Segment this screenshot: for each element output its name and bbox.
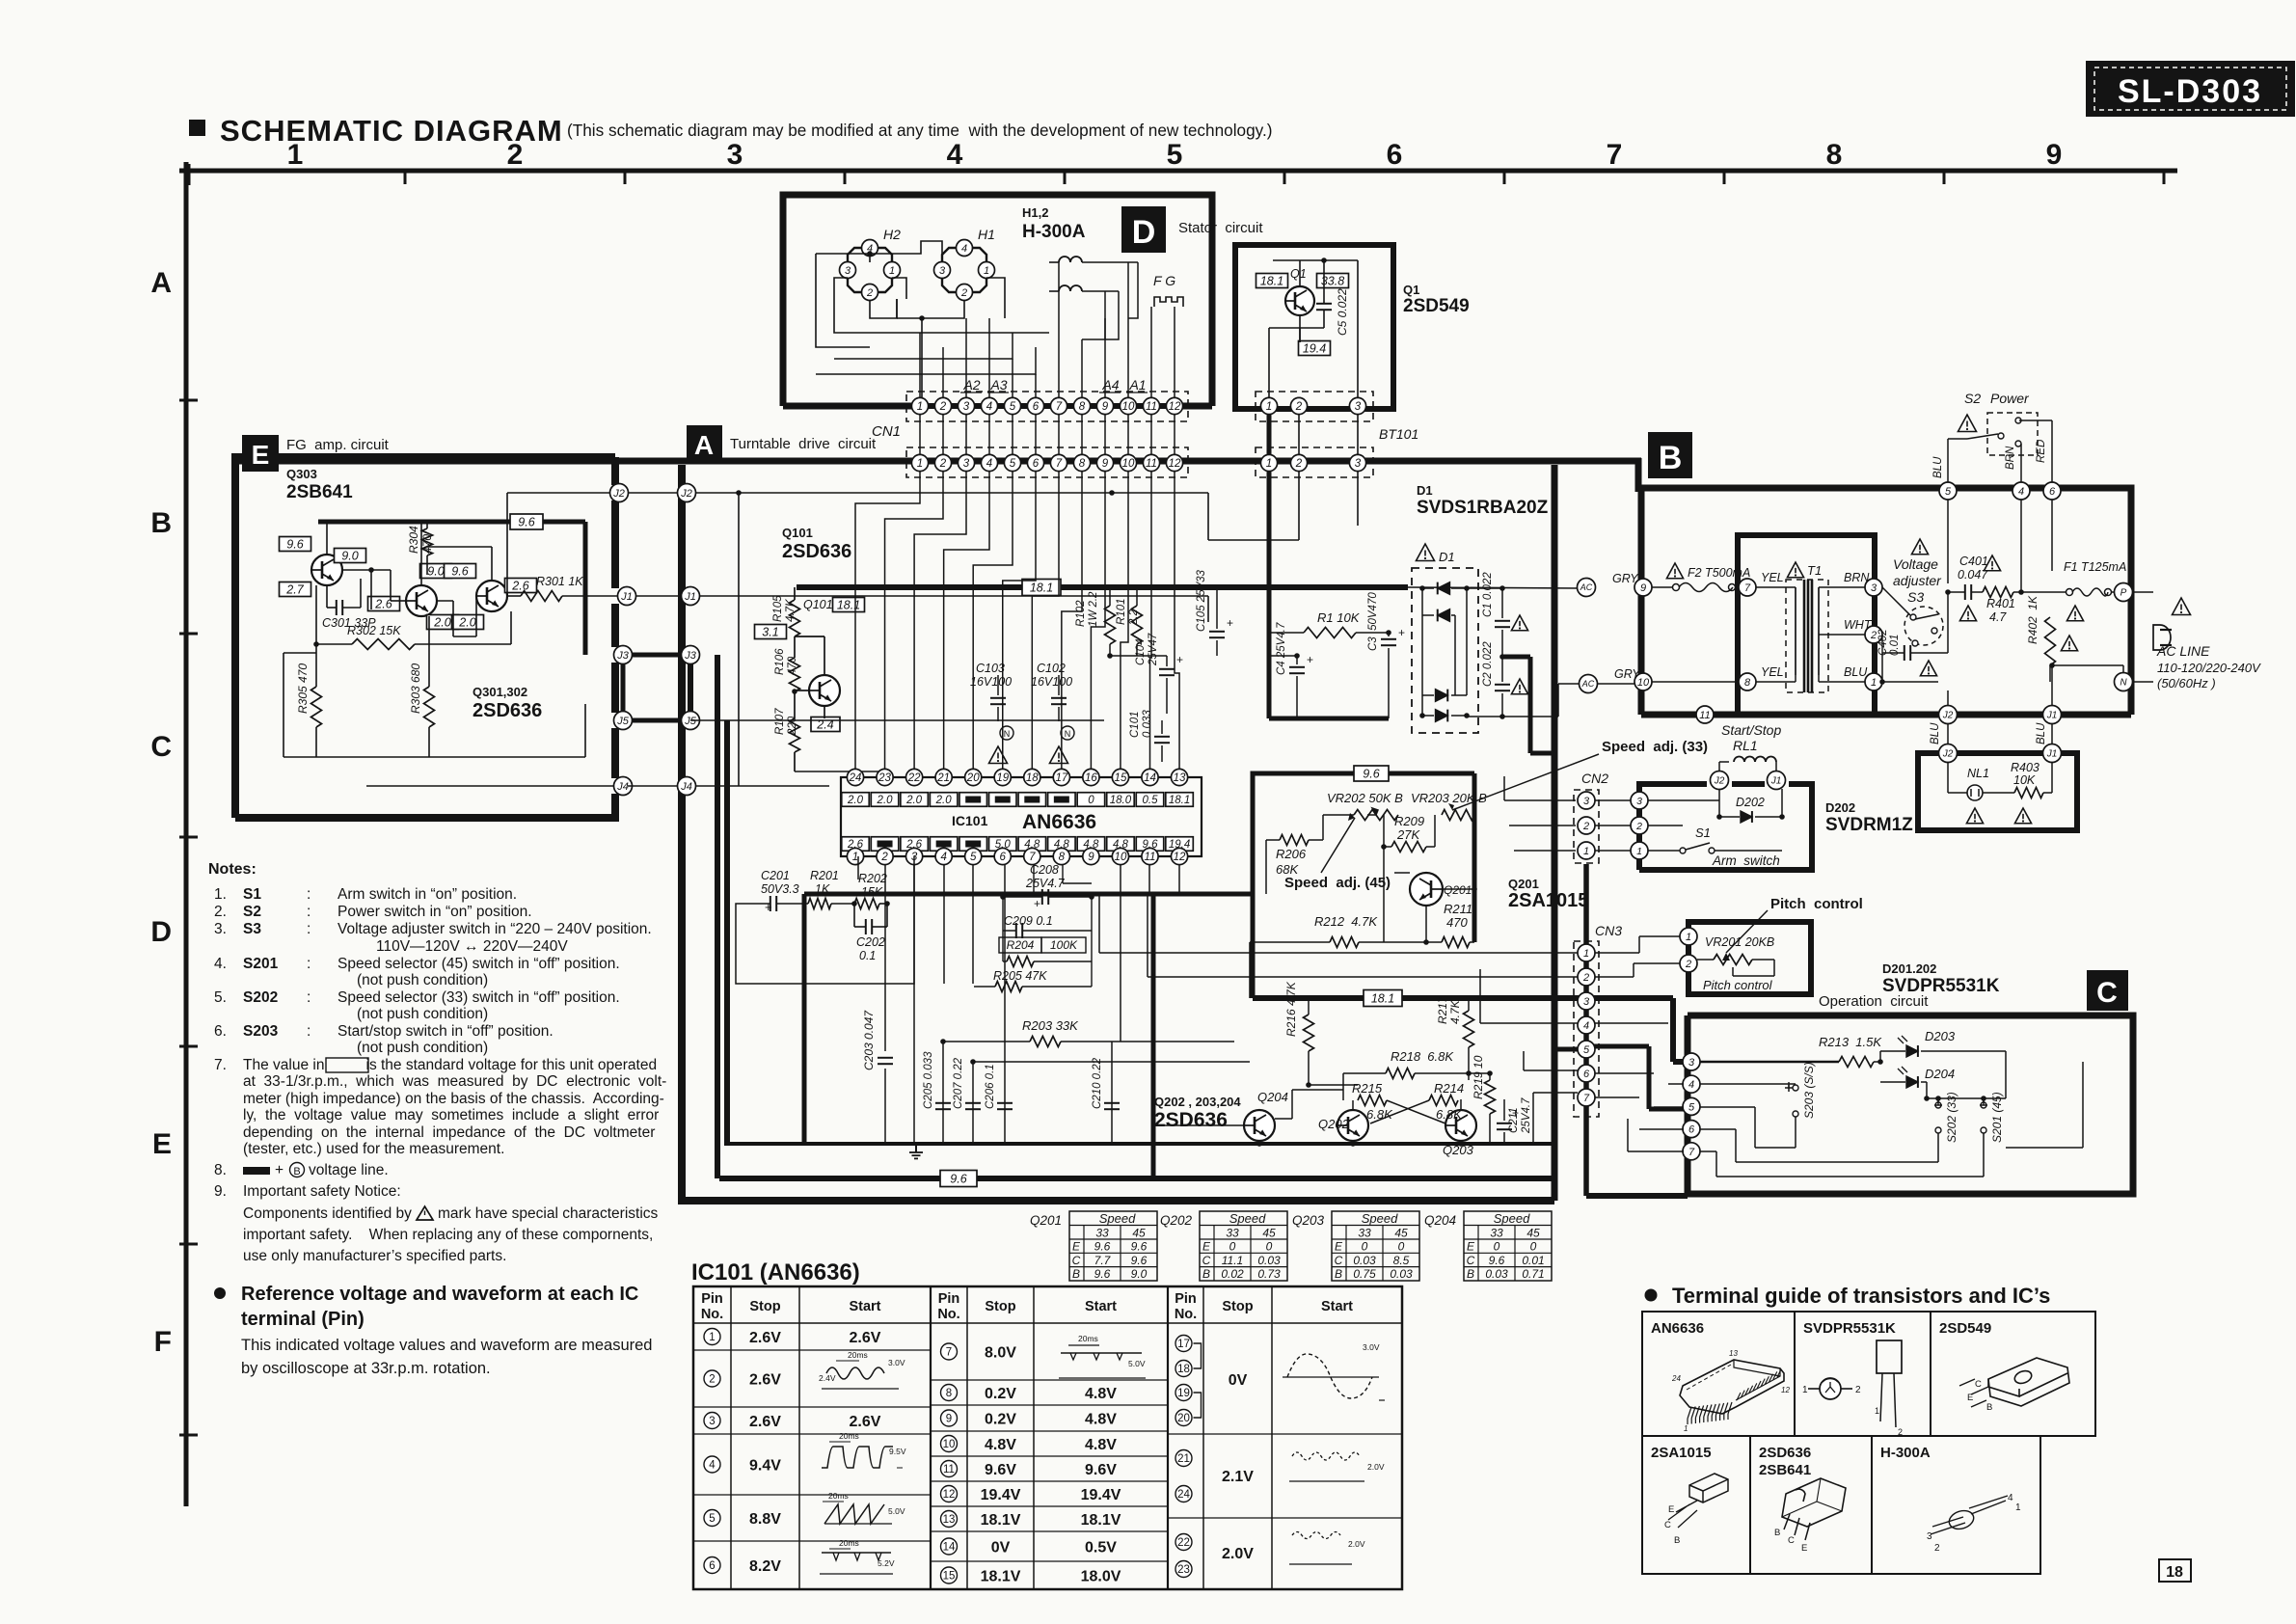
svg-text:5: 5 [1010,401,1016,413]
svg-text:2: 2 [1635,821,1642,832]
svg-text:C103: C103 [976,662,1005,675]
svg-text:17: 17 [1055,772,1067,784]
cross coupling wires [1387,1100,1445,1123]
node J4 A-side [678,777,696,796]
svg-text:3.: 3. [214,921,227,937]
svg-text:2: 2 [939,401,947,413]
svg-text:14: 14 [943,1542,956,1554]
svg-text:E: E [1801,1543,1807,1554]
svg-text:14: 14 [1144,772,1156,784]
svg-text:2SB641: 2SB641 [286,482,353,502]
svg-text:5: 5 [970,852,977,863]
circle 7 [1739,579,1756,596]
svg-text:Arm switch in “on” position.: Arm switch in “on” position. [338,886,517,903]
svg-text:2: 2 [1898,1427,1903,1437]
top ruler [179,169,2177,174]
svg-text:Q201: Q201 [1508,877,1539,891]
svg-text:C209 0.1: C209 0.1 [1004,914,1053,928]
IC101 pin circles top row 24-13 [847,769,863,785]
svg-text:23: 23 [878,772,891,784]
resistor R401 4.7 [1983,587,2013,598]
svg-text:2.6V: 2.6V [850,1414,881,1430]
svg-text:7.7: 7.7 [1094,1254,1112,1267]
svg-text:470: 470 [1446,915,1468,930]
svg-text:J1: J1 [684,591,696,603]
svg-text:4.7: 4.7 [1989,610,2007,624]
wire mesh inside D [834,333,1013,359]
svg-text:4.: 4. [214,956,227,972]
svg-text:2: 2 [939,458,947,470]
svg-text:(not push condition): (not push condition) [357,1040,488,1056]
svg-text:8.8V: 8.8V [749,1511,781,1528]
svg-text:4: 4 [1688,1079,1694,1091]
svg-text:1: 1 [1684,1424,1688,1433]
svg-text:10: 10 [1122,458,1135,470]
svg-text:No.: No. [701,1307,723,1322]
heavy bus 18.1 horizontal [797,584,1408,590]
svg-text:4.8V: 4.8V [985,1437,1016,1453]
svg-text:9.6V: 9.6V [1085,1462,1117,1478]
package drawing AN6636 [1680,1360,1784,1414]
svg-text:+: + [275,1162,284,1178]
svg-text:1: 1 [852,852,858,863]
svg-text:4.8V: 4.8V [1085,1386,1117,1402]
svg-text:2.0: 2.0 [458,615,475,629]
resistor R105 4.7K [790,600,800,636]
svg-text:Q202: Q202 [1160,1213,1193,1228]
svg-text:H-300A: H-300A [1880,1445,1931,1461]
svg-text:1: 1 [1875,1406,1879,1416]
waveform ripple 22-23 [1292,1532,1340,1539]
svg-text:D: D [150,916,172,948]
neon lamp box outline [1918,753,2077,830]
svg-text:R305 470: R305 470 [296,663,310,714]
svg-text:R215: R215 [1352,1081,1383,1096]
svg-text:Q101: Q101 [782,526,813,540]
svg-text:25V47: 25V47 [1148,633,1159,666]
svg-text:1: 1 [709,1332,715,1343]
svg-text:E: E [1967,1393,1973,1403]
svg-text:20ms: 20ms [839,1538,859,1548]
svg-text:3: 3 [845,265,851,277]
circle 4 [2012,482,2030,500]
circles 3-7 on box C [1683,1053,1700,1070]
terminal guide table [1642,1312,2095,1436]
wires CN3 to pitch [1595,952,1639,954]
svg-text:15: 15 [943,1571,956,1583]
svg-text:C205 0.033: C205 0.033 [923,1051,934,1109]
svg-text:R211: R211 [1444,902,1472,916]
svg-text:3: 3 [727,139,743,171]
svg-text:100K: 100K [1050,938,1078,952]
svg-text:21: 21 [936,772,950,784]
svg-text::: : [307,1023,311,1040]
rectifier D1 dashed box [1412,568,1478,733]
circle J2 B [1939,706,1958,724]
svg-text:A: A [694,430,714,460]
svg-text:RL1: RL1 [1733,738,1758,753]
svg-text:2: 2 [1295,401,1303,413]
transistor Q101 [809,675,840,706]
svg-text:R204: R204 [1007,938,1035,952]
svg-text:C: C [1467,1254,1475,1267]
svg-text:(This schematic diagram may be: (This schematic diagram may be modified … [567,121,1272,140]
svg-text:7: 7 [946,1347,952,1359]
switch S202 33 [1935,1102,1941,1108]
svg-text:20ms: 20ms [848,1350,868,1360]
svg-text:C210 0.22: C210 0.22 [1092,1057,1103,1109]
circle 11 [1696,706,1714,723]
svg-text:D202: D202 [1736,796,1765,809]
svg-text:Speed: Speed [1229,1211,1266,1226]
svg-text:6.8K: 6.8K [1436,1107,1463,1122]
svg-text:2: 2 [1295,458,1303,470]
box D internal drop wires [919,333,921,398]
svg-text:9.6: 9.6 [1363,767,1379,780]
node J3 E-side [614,646,633,664]
svg-text:9.5V: 9.5V [889,1447,906,1456]
svg-text:33: 33 [1490,1227,1503,1240]
node J2 E-side [610,484,629,502]
svg-text:16V100: 16V100 [970,675,1012,689]
svg-text:8.2V: 8.2V [749,1558,781,1575]
svg-text:Speed selector (45) switch in: Speed selector (45) switch in “off” posi… [338,956,620,972]
svg-text:7.: 7. [214,1057,227,1073]
svg-text:N: N [1065,729,1071,739]
svg-text:R102: R102 [1075,600,1087,627]
svg-text:2: 2 [880,852,888,863]
svg-text:1: 1 [889,265,895,277]
svg-text:2SA1015: 2SA1015 [1508,890,1588,911]
svg-text:voltage line.: voltage line. [309,1162,389,1178]
motor coil H2 [858,247,881,249]
svg-text:J4: J4 [616,781,629,793]
model label SL-D303 [2087,62,2294,116]
svg-text:21: 21 [1177,1453,1190,1465]
svg-text:4.8V: 4.8V [1085,1412,1117,1428]
node J2 A-side [678,484,696,502]
svg-text:2.6V: 2.6V [749,1330,781,1346]
svg-text:J1: J1 [2046,711,2058,721]
svg-text:C211: C211 [1508,1107,1520,1133]
svg-text:0.03: 0.03 [1257,1254,1281,1267]
motor coil H1 [953,247,976,249]
svg-text:R1 10K: R1 10K [1317,610,1361,625]
svg-text:1: 1 [917,401,923,413]
svg-text:20: 20 [1177,1413,1190,1424]
svg-text:9.6: 9.6 [286,537,303,551]
resistor R305 470 [311,687,322,727]
svg-text:10: 10 [943,1439,956,1450]
svg-text:18.1V: 18.1V [981,1512,1021,1529]
svg-text:C207 0.22: C207 0.22 [953,1057,964,1109]
svg-text:0: 0 [1266,1240,1273,1254]
svg-text:3.0V: 3.0V [1363,1342,1380,1352]
AC LINE plug [2173,598,2191,615]
svg-text:12: 12 [1169,401,1181,413]
svg-text:No.: No. [1175,1307,1197,1322]
svg-text:9.6: 9.6 [451,564,468,578]
resistor R106 470 [790,658,800,691]
svg-text:Pin: Pin [1175,1291,1197,1307]
svg-text:9.6: 9.6 [1131,1240,1148,1254]
svg-text:0: 0 [1398,1240,1405,1254]
svg-text:6: 6 [2049,486,2056,498]
svg-text:9: 9 [1640,582,1646,594]
svg-text:7: 7 [1029,852,1036,863]
svg-text:8: 8 [1059,852,1066,863]
svg-text:R304: R304 [407,526,420,554]
svg-text:R303 680: R303 680 [409,663,422,714]
svg-text:2: 2 [1855,1385,1861,1395]
svg-text:2: 2 [866,287,873,299]
node J5 A-side [682,712,700,730]
circle 6 [2043,482,2061,500]
svg-text:J4: J4 [680,781,692,793]
svg-text:Speed: Speed [1494,1211,1530,1226]
svg-text:9.6: 9.6 [1489,1254,1505,1267]
svg-text:Q204: Q204 [1257,1090,1288,1104]
svg-text:BLU: BLU [1844,665,1868,679]
svg-text:7: 7 [1583,1093,1590,1104]
bottom rail wire [1467,716,1558,717]
circle 2 pitch [1680,955,1697,972]
wire H2-3 left [834,278,1049,333]
svg-text:C: C [1788,1535,1795,1546]
svg-text:18.0V: 18.0V [1081,1569,1121,1585]
svg-text:+: + [1034,897,1040,910]
svg-text:Turntable drive circuit: Turntable drive circuit [730,436,877,452]
svg-text:3: 3 [963,458,970,470]
svg-text:4.8V: 4.8V [1085,1437,1117,1453]
svg-text:20ms: 20ms [1078,1334,1098,1343]
IC IC101 AN6636 outline [841,777,1202,856]
transformer T1 [1787,562,1803,578]
svg-text::: : [307,956,311,972]
package drawing 2SD549 [1959,1358,2069,1407]
circle 5 [1939,482,1957,500]
speed adj heavy box [1253,773,1474,894]
svg-text:Stator circuit: Stator circuit [1178,220,1263,236]
svg-text:Q201: Q201 [1444,883,1472,897]
svg-text:Terminal guide of transistors: Terminal guide of transistors and IC’s [1672,1284,2050,1308]
heavy vertical x1196 [1151,894,1156,1178]
connector CN3 dashed box [1574,941,1599,1117]
svg-text:13: 13 [1729,1349,1738,1358]
svg-text:S201: S201 [243,956,279,972]
svg-text:A1: A1 [1128,377,1146,392]
svg-text:R217: R217 [1436,995,1449,1024]
svg-text:J3: J3 [616,650,630,662]
connector CN3 pins [1578,944,1595,961]
svg-text:H1,2: H1,2 [1022,205,1048,220]
svg-text:9.6: 9.6 [950,1172,966,1185]
svg-text:SVDPR5531K: SVDPR5531K [1803,1320,1896,1337]
wire center node [896,299,898,318]
switch S201 45 [1981,1102,1986,1108]
svg-text:Q301,302: Q301,302 [473,685,527,699]
svg-text:6: 6 [1033,458,1040,470]
capacitor C202 0.1 [865,919,867,934]
pins 4,5 verticals [943,864,945,984]
svg-text:adjuster: adjuster [1893,573,1942,588]
svg-text:2: 2 [960,287,967,299]
svg-text:2SA1015: 2SA1015 [1651,1445,1712,1461]
svg-text:5: 5 [709,1513,715,1525]
svg-text:Pin: Pin [701,1291,723,1307]
svg-text:BLU: BLU [1930,722,1941,744]
svg-text:R209: R209 [1394,814,1424,828]
svg-text:J1: J1 [1770,776,1782,787]
svg-text:R206: R206 [1276,847,1307,861]
wire H1-1 right [986,278,1005,318]
capacitor C210 0.22 [1111,1042,1113,1144]
svg-text:45: 45 [1394,1227,1408,1240]
svg-text:Reference voltage and waveform: Reference voltage and waveform at each I… [241,1284,638,1305]
svg-text:use only manufacturer’s specif: use only manufacturer’s specified parts. [243,1248,506,1264]
connector CN1 row2 pins 1-12 [911,454,928,471]
circle P [2115,583,2133,602]
svg-text:5.0V: 5.0V [1128,1359,1146,1368]
svg-text:AC LINE: AC LINE [2156,643,2210,659]
svg-text:4: 4 [1583,1020,1589,1032]
Q1 wires [1268,328,1270,398]
svg-text:2: 2 [1582,972,1589,984]
svg-text:2.0: 2.0 [877,795,894,806]
svg-text:R107: R107 [774,708,786,735]
connector BT101 [1256,447,1373,477]
svg-text:AN6636: AN6636 [1022,811,1096,833]
wire H2-2 down [870,299,897,318]
svg-text:E: E [1668,1504,1674,1515]
svg-text:2SD636: 2SD636 [1154,1109,1228,1131]
bridge output heavy wire [1502,655,1530,660]
svg-text:24: 24 [849,772,862,784]
svg-text:9: 9 [1088,852,1094,863]
svg-text:at 33-1/3r.p.m., which was: at 33-1/3r.p.m., which was measured by D… [243,1073,666,1090]
svg-text:C: C [1975,1379,1982,1390]
svg-text:mark have special characterist: mark have special characteristics [438,1205,659,1222]
svg-text:3: 3 [939,265,946,277]
svg-text:5: 5 [1945,486,1952,498]
svg-text:R101: R101 [1116,599,1127,626]
svg-text:Stop: Stop [749,1299,780,1314]
svg-text:0.5: 0.5 [1143,795,1159,806]
svg-text:9: 9 [1102,401,1109,413]
svg-text:Arm switch: Arm switch [1712,853,1780,868]
svg-text:D1: D1 [1439,550,1455,564]
svg-text:3.0V: 3.0V [888,1358,905,1367]
svg-text:4: 4 [961,243,967,255]
svg-text:B: B [1659,440,1683,476]
warning triangle D1 [1417,544,1435,561]
emitter bus [804,1142,1554,1146]
svg-text:2: 2 [507,139,524,171]
svg-text:4: 4 [709,1460,716,1472]
svg-text:C3 50V470: C3 50V470 [1367,592,1379,651]
svg-text:ly, the voltage value may: ly, the voltage value may sometimes incl… [243,1107,659,1123]
svg-text:7: 7 [1607,139,1623,171]
svg-text:R106: R106 [774,648,786,675]
svg-text:6: 6 [1033,401,1040,413]
svg-text:D204: D204 [1925,1067,1955,1081]
connector CN1 row1 pins 1-12 [920,403,1175,409]
svg-text:Pin: Pin [938,1291,960,1307]
svg-text:0.01: 0.01 [1522,1254,1544,1267]
J wire row 2 [507,492,619,494]
svg-text:2: 2 [1934,1543,1940,1554]
svg-text:1: 1 [1583,948,1589,960]
svg-text:Q101: Q101 [803,598,833,611]
svg-text:3: 3 [963,401,970,413]
svg-text:2SB641: 2SB641 [1759,1462,1811,1478]
svg-text:5: 5 [1167,139,1183,171]
svg-text:18: 18 [1177,1364,1190,1375]
J pair links [628,492,678,494]
svg-text:23: 23 [1177,1564,1190,1576]
svg-text:important safety. When repl: important safety. When replacing any of … [243,1227,653,1243]
svg-text:E: E [1072,1240,1081,1254]
svg-text:0.02: 0.02 [1221,1267,1244,1281]
circle J1 NL [2043,744,2062,763]
svg-text:J5: J5 [616,716,630,727]
circle 10 [1634,673,1652,690]
svg-text:SVDRM1Z: SVDRM1Z [1825,815,1913,835]
transistor Q202 [1337,1110,1368,1141]
svg-text:2.0: 2.0 [905,795,923,806]
wires CN2 to relay [1631,792,1648,809]
svg-text:20ms: 20ms [828,1491,849,1501]
connector CN1 dashed boxes [906,392,1188,421]
package drawing H-300A [1931,1496,2008,1534]
svg-text:B: B [1774,1528,1780,1538]
svg-text:+: + [1176,653,1183,666]
switch S203 S/S [1793,1085,1798,1091]
resistor R304 470 [422,528,433,555]
svg-text:CN3: CN3 [1595,923,1622,938]
pitch control box outline [1688,922,1811,994]
svg-text:S202: S202 [243,989,278,1006]
svg-text:3: 3 [709,1416,715,1427]
svg-text:C: C [2096,977,2118,1009]
wires to CN3 upper [1099,952,1586,954]
svg-text:1: 1 [1266,458,1272,470]
svg-text:Pitch control: Pitch control [1703,978,1773,992]
svg-text:5.2V: 5.2V [878,1558,895,1568]
svg-text:B: B [1467,1267,1474,1281]
relay coil RL1 [1734,757,1776,763]
heavy BT101 column down [1267,472,1272,718]
svg-text:18.1: 18.1 [1260,274,1283,287]
svg-text:4.7K: 4.7K [785,598,797,622]
svg-text:F1 T125mA: F1 T125mA [2064,560,2126,574]
flip flop wires [1275,1118,1292,1120]
svg-text:Voltage adjuster switch in “22: Voltage adjuster switch in “220 – 240V p… [338,921,652,937]
heavy bus verticals left [715,655,720,1178]
svg-text:D202: D202 [1825,800,1855,815]
svg-text:1: 1 [1686,932,1691,943]
svg-text:2.0V: 2.0V [1348,1539,1365,1549]
svg-text:C: C [1072,1254,1081,1267]
svg-text:11.1: 11.1 [1222,1254,1243,1267]
svg-text:2.6: 2.6 [511,579,528,592]
svg-text:2.0: 2.0 [935,795,953,806]
svg-text:4: 4 [2018,486,2024,498]
fuse F2 T500mA [1666,563,1683,579]
svg-text:R213 1.5K: R213 1.5K [1819,1035,1882,1049]
svg-text:R401: R401 [1986,597,2015,610]
svg-text:Important safety Notice:: Important safety Notice: [243,1183,401,1200]
